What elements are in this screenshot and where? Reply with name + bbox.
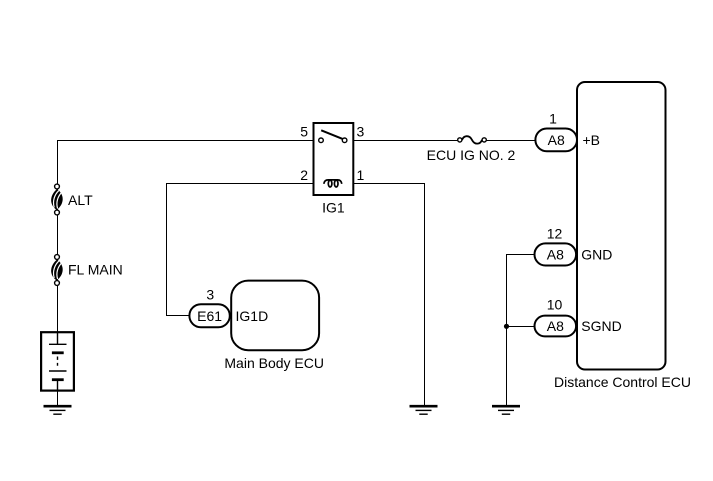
relay IG1 bbox=[300, 123, 364, 216]
fuse ECU IG NO. 2 bbox=[427, 136, 516, 163]
wire: SGND pill to vertical bbox=[506, 326, 536, 328]
node: SGND junction dot bbox=[504, 324, 509, 329]
svg-text:3: 3 bbox=[357, 123, 365, 139]
svg-text:1: 1 bbox=[357, 167, 365, 183]
contact pin 5 bbox=[319, 138, 324, 143]
svg-text:1: 1 bbox=[549, 110, 557, 126]
wire: fuse to A8 +B pill bbox=[484, 140, 537, 142]
Main Body ECU box bbox=[224, 281, 324, 371]
Distance Control ECU box bbox=[554, 82, 691, 390]
svg-text:12: 12 bbox=[547, 226, 563, 242]
svg-text:ECU IG NO. 2: ECU IG NO. 2 bbox=[427, 147, 516, 163]
svg-text:FL MAIN: FL MAIN bbox=[68, 262, 123, 278]
wire: left vertical battery feed bbox=[57, 140, 59, 334]
svg-text:SGND: SGND bbox=[581, 318, 621, 334]
ground (battery) bbox=[44, 406, 72, 414]
coil bbox=[324, 180, 342, 184]
svg-text:E61: E61 bbox=[197, 308, 222, 324]
svg-text:2: 2 bbox=[300, 167, 308, 183]
wire: relay pin 2 to corner to Main Body ECU E61 bbox=[167, 183, 325, 316]
wire: relay pin 1 to ground bbox=[342, 183, 425, 406]
svg-text:GND: GND bbox=[581, 247, 612, 263]
svg-text:A8: A8 bbox=[547, 247, 564, 263]
svg-text:+B: +B bbox=[583, 132, 601, 148]
svg-text:3: 3 bbox=[206, 287, 214, 303]
svg-text:A8: A8 bbox=[548, 132, 565, 148]
ground (relay coil) bbox=[410, 406, 438, 414]
wire: battery to ground bbox=[57, 390, 59, 406]
svg-text:ALT: ALT bbox=[68, 192, 93, 208]
wire: main horizontal bus from left vertical to relay pin 5 bbox=[57, 140, 321, 142]
connector A8 pin 10 (SGND) bbox=[535, 297, 622, 337]
connector E61 pin 3 (IG1D) bbox=[189, 287, 229, 328]
svg-text:IG1: IG1 bbox=[322, 200, 345, 216]
svg-text:IG1D: IG1D bbox=[236, 308, 269, 324]
svg-text:A8: A8 bbox=[547, 318, 564, 334]
battery bbox=[41, 332, 74, 390]
switch blade bbox=[321, 130, 342, 139]
wire: relay pin 3 to fuse bbox=[345, 140, 460, 142]
svg-text:Distance Control ECU: Distance Control ECU bbox=[554, 374, 691, 390]
fusible link ALT bbox=[51, 184, 93, 215]
connector A8 pin 12 (GND) bbox=[535, 226, 613, 266]
contact pin 3 bbox=[342, 138, 347, 143]
svg-text:5: 5 bbox=[300, 123, 308, 139]
svg-text:Main Body ECU: Main Body ECU bbox=[224, 355, 324, 371]
svg-text:10: 10 bbox=[547, 297, 563, 313]
ground (ECU GND/SGND) bbox=[492, 406, 520, 414]
connector A8 pin 1 (+B) bbox=[535, 110, 600, 151]
wire: GND pill to left vertical bbox=[506, 254, 536, 406]
fusible link FL MAIN bbox=[51, 255, 123, 286]
